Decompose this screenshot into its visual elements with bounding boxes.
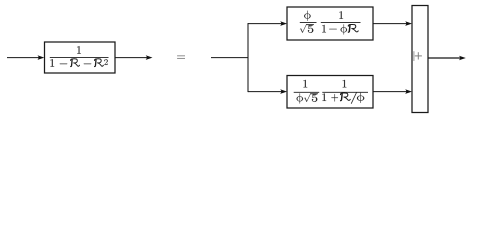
label: fraction bar of 1/(1-phi R): [321, 21, 361, 23]
label: numerator phi of phi/sqrt5: [304, 11, 310, 21]
label: numerator 1 of 1/(1-phi R): [339, 11, 343, 19]
label: fraction bar of 1/(1+R/phi): [322, 91, 368, 93]
label: fraction bar: [50, 57, 109, 59]
adder symbol: vertical bar: [413, 51, 415, 61]
wire: top branch arrow into top block: [248, 23, 282, 25]
wire: output arrow of adder: [428, 57, 460, 59]
label: numerator 1: [77, 46, 81, 54]
wire: arrow from top block into adder: [373, 23, 407, 25]
label: denominator sqrt 5: [300, 24, 307, 33]
label: denominator 1 + R/phi: [322, 93, 326, 101]
label: fraction bar of 1/(phi sqrt5): [294, 91, 320, 93]
block 1/(1-R-R^2) : box: [45, 42, 116, 73]
adder block (summing junction): [412, 6, 428, 113]
label: denominator phi sqrt5: [297, 93, 303, 103]
label: numerator 1 of 1/(phi sqrt5): [303, 80, 307, 88]
wire: input lead of right diagram: [211, 57, 249, 59]
wire: bottom branch arrow into bottom block: [248, 91, 282, 93]
adder symbol: plus sign: [415, 55, 422, 57]
label: fraction bar of phi/sqrt5: [300, 21, 317, 23]
equals sign: [177, 54, 185, 57]
wire: vertical branch split: [247, 23, 249, 92]
wire: output arrow of left block: [115, 57, 147, 59]
label: denominator 1 - phi R: [322, 25, 326, 33]
wire: input arrow into left block: [7, 57, 40, 59]
block (1/(phi sqrt5))(1/(1+R/phi)) : bottom box: [287, 76, 373, 109]
label: denominator 1 - R - R^2: [50, 59, 54, 67]
wire: arrow from bottom block into adder: [373, 91, 407, 93]
label: numerator 1 of 1/(1+R/phi): [343, 80, 347, 88]
block (phi/sqrt5)(1/(1-phi R)) : top box: [287, 7, 373, 40]
